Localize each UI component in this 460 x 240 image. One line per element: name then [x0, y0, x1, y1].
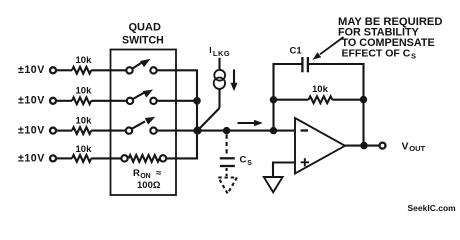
svg-text:I: I	[209, 45, 211, 55]
svg-text:LKG: LKG	[213, 49, 230, 58]
op-amp minus pin mark	[301, 129, 309, 131]
bus vertical collecting switch outputs	[196, 70, 198, 158]
junction summing node	[193, 127, 201, 135]
switch S2 right contact	[150, 98, 156, 104]
svg-text:±10V: ±10V	[18, 152, 45, 164]
svg-text:SeekIC.com: SeekIC.com	[408, 203, 457, 213]
wire row2 resistor to switch	[91, 100, 127, 102]
wire feedback right vertical	[362, 63, 364, 146]
wire row3 switch to summing node	[156, 130, 198, 132]
svg-text:10k: 10k	[312, 84, 329, 95]
svg-text:10k: 10k	[76, 115, 93, 126]
junction bus row2	[193, 97, 201, 105]
label Ron value	[133, 168, 162, 191]
switch S3 left contact	[126, 127, 132, 133]
output terminal	[380, 143, 386, 149]
wire row3 resistor to switch	[91, 130, 126, 132]
capacitor C1	[302, 57, 308, 72]
junction feedback resistor left	[270, 96, 277, 103]
svg-text:OUT: OUT	[409, 144, 425, 153]
capacitor Cs	[220, 158, 235, 166]
svg-text:R: R	[133, 168, 140, 179]
note arrow to C1	[313, 37, 344, 60]
resistor R 10k row3	[72, 127, 91, 134]
input terminal row1	[50, 67, 56, 73]
svg-text:ON: ON	[140, 173, 151, 180]
junction feedback tap	[270, 127, 277, 134]
wire row4 resistor to Ron	[91, 157, 121, 159]
wire plus input	[273, 163, 295, 178]
wire row2 terminal to resistor	[56, 100, 72, 102]
current source ILKG top wire	[218, 58, 220, 70]
input terminal row4	[50, 155, 56, 161]
wire C1 top rail right	[309, 63, 365, 65]
current flow arrow right	[238, 120, 263, 127]
svg-text:±10V: ±10V	[18, 95, 45, 107]
wire dashed Cs top	[226, 135, 228, 157]
svg-text:10k: 10k	[76, 55, 93, 66]
wire op-amp output	[345, 145, 379, 147]
svg-text:C: C	[240, 155, 247, 166]
wire row3 terminal to resistor	[56, 130, 72, 132]
svg-text:EFFECT OF C: EFFECT OF C	[342, 48, 411, 60]
current direction arrow down	[231, 70, 238, 92]
wire row1 switch to bus	[157, 69, 198, 71]
ground dashed below Cs	[218, 178, 237, 194]
svg-text:±10V: ±10V	[18, 125, 45, 137]
svg-text:SWITCH: SWITCH	[122, 35, 164, 47]
switch S2 left contact	[127, 98, 133, 104]
label QUAD SWITCH	[122, 22, 164, 47]
switch S1 arm and arrow	[132, 59, 150, 69]
current source ILKG circles	[214, 70, 225, 89]
svg-text:S: S	[247, 160, 252, 167]
svg-text:±10V: ±10V	[18, 64, 45, 76]
wire row4 terminal to resistor	[56, 157, 72, 159]
svg-text:QUAD: QUAD	[129, 22, 161, 34]
wire row1 terminal to resistor	[56, 69, 72, 71]
ground at plus input	[264, 177, 283, 192]
wire feedback left vertical	[272, 63, 274, 131]
switch S1 left contact	[126, 67, 132, 73]
svg-text:C1: C1	[290, 46, 303, 57]
resistor R 10k row2	[72, 97, 91, 104]
input terminal row3	[50, 128, 56, 134]
svg-text:≈: ≈	[156, 168, 162, 179]
wire row4 Ron to bus	[166, 157, 198, 159]
wire summing rail to op-amp	[198, 130, 296, 132]
wire diagonal ILKG to summing node	[198, 108, 220, 131]
junction Cs tap	[223, 127, 230, 134]
junction output node	[360, 142, 368, 150]
QUAD SWITCH box	[111, 50, 177, 196]
resistor R 10k row1	[72, 67, 91, 74]
resistor 10k feedback	[309, 96, 333, 103]
label ILKG	[209, 45, 230, 58]
switch S2 arm and arrow	[133, 90, 153, 100]
current source ILKG bottom wire	[218, 89, 220, 108]
input terminal row2	[50, 98, 56, 104]
wire feedback resistor rail left	[274, 99, 309, 101]
switch S3 arm and arrow	[132, 117, 155, 129]
svg-text:S: S	[411, 52, 416, 61]
note text may be required	[338, 16, 442, 61]
label Cs	[240, 155, 253, 168]
wire C1 top rail left	[273, 63, 302, 65]
wire row1 resistor to switch	[91, 69, 126, 71]
resistor R 10k row4	[72, 155, 91, 162]
switch S1 right contact	[150, 67, 156, 73]
resistor Ron	[129, 155, 160, 162]
svg-text:10k: 10k	[76, 86, 93, 97]
svg-text:V: V	[402, 140, 409, 152]
label VOUT	[402, 140, 426, 153]
svg-text:100Ω: 100Ω	[137, 180, 161, 191]
wire row2 switch to bus	[157, 100, 198, 102]
Ron left contact	[121, 155, 127, 161]
op-amp U1	[295, 118, 345, 174]
op-amp plus pin mark	[301, 158, 309, 166]
wire feedback resistor rail right	[332, 99, 363, 101]
wire dashed Cs bottom	[226, 168, 228, 176]
switch S3 right contact	[150, 127, 156, 133]
Ron right contact	[160, 155, 166, 161]
junction feedback resistor right	[360, 96, 367, 103]
svg-text:10k: 10k	[76, 144, 93, 155]
